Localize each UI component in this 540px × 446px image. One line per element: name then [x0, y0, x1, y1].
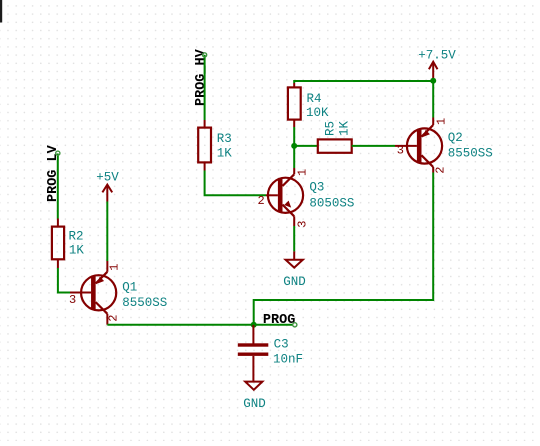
svg-text:C3: C3 — [274, 338, 289, 352]
svg-text:1K: 1K — [338, 120, 352, 136]
open wire end at PROG — [293, 323, 297, 327]
svg-text:2: 2 — [107, 315, 121, 322]
junction at +7.5V node — [430, 78, 436, 84]
wire R2 to Q1 base — [58, 268, 70, 293]
svg-text:R5: R5 — [324, 121, 338, 136]
wire PROG_HV label to R3 — [204, 55, 206, 120]
svg-text:1K: 1K — [217, 146, 233, 160]
wire +7.5V node to Q2 emitter — [432, 81, 434, 118]
svg-text:2: 2 — [258, 194, 265, 208]
svg-text:3: 3 — [69, 293, 76, 307]
wire +5V to Q1 collector — [106, 202, 108, 262]
svg-text:10nF: 10nF — [273, 353, 303, 367]
transistor Q3 (NPN 8050SS) — [258, 168, 355, 228]
wire R3 to Q3 base — [205, 171, 266, 196]
svg-text:8550SS: 8550SS — [122, 296, 167, 310]
open wire end at PROG_LV — [56, 151, 60, 155]
junction node R4/R5/Q3 — [291, 143, 297, 149]
svg-text:PROG_HV: PROG_HV — [194, 48, 209, 106]
svg-text:PROG: PROG — [263, 313, 295, 328]
wire R5 to Q2 base — [352, 145, 395, 147]
junction node PROG — [251, 322, 257, 328]
svg-text:+7.5V: +7.5V — [418, 49, 456, 63]
wire stub to PROG label — [254, 324, 293, 326]
svg-text:+5V: +5V — [96, 171, 119, 185]
open wire end at PROG_HV — [203, 53, 207, 57]
wire +7.5V rail to R4 — [294, 81, 433, 83]
power symbol +7.5V — [418, 49, 456, 81]
svg-text:GND: GND — [283, 275, 306, 289]
svg-text:R2: R2 — [69, 230, 84, 244]
svg-text:2: 2 — [434, 167, 448, 174]
svg-text:3: 3 — [296, 221, 310, 228]
transistor Q2 (PNP 8550SS) — [395, 118, 493, 174]
svg-text:3: 3 — [397, 144, 404, 158]
svg-text:8050SS: 8050SS — [309, 196, 354, 210]
svg-text:Q1: Q1 — [122, 281, 137, 295]
resistor R4 — [288, 83, 329, 127]
transistor Q1 (PNP 8550SS) — [69, 261, 167, 325]
svg-text:1: 1 — [108, 264, 122, 271]
svg-text:8550SS: 8550SS — [448, 147, 493, 161]
wire Q2 collector to PROG node — [254, 173, 434, 325]
svg-text:R4: R4 — [307, 92, 322, 106]
svg-text:1: 1 — [435, 118, 449, 125]
ground GND at C3 — [243, 382, 266, 411]
ground GND at Q3 — [283, 251, 306, 289]
wire Q1 collector to PROG node — [107, 324, 253, 326]
svg-text:R3: R3 — [217, 132, 232, 146]
svg-text:Q2: Q2 — [448, 131, 463, 145]
wire PROG_LV label to R2 — [57, 154, 59, 219]
svg-text:GND: GND — [243, 397, 266, 411]
svg-text:Q3: Q3 — [309, 180, 324, 194]
resistor R3 — [198, 120, 232, 171]
wire R4 to Q3 collector — [293, 127, 295, 168]
window edge artifact (top-left dark bar) — [0, 0, 2, 23]
capacitor C3 — [238, 325, 303, 382]
svg-text:10K: 10K — [306, 106, 329, 120]
wire Q3 emitter to GND — [293, 226, 295, 251]
svg-text:1K: 1K — [69, 244, 85, 258]
resistor R5 — [318, 120, 352, 152]
power symbol +5V — [96, 171, 119, 202]
wire junction to R5 — [294, 145, 318, 147]
resistor R2 — [52, 219, 85, 269]
svg-text:1: 1 — [296, 169, 310, 176]
